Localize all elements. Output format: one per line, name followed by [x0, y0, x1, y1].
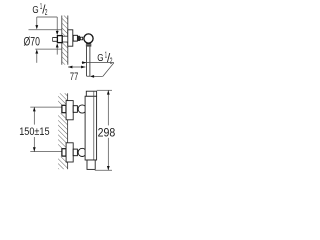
neck to handle	[80, 37, 82, 40]
dimension 77	[68, 66, 85, 84]
supply pipe stub (in wall)	[53, 38, 58, 42]
bottom outlet of column	[87, 160, 95, 169]
lower union nut square	[73, 149, 77, 156]
svg-text:150±15: 150±15	[19, 126, 49, 138]
svg-text:77: 77	[70, 71, 78, 83]
leader to pipe side (G1/2 right)	[82, 61, 114, 64]
escutcheon extension line top	[29, 29, 62, 31]
wall section band (top view)	[62, 16, 68, 65]
G1/2 leader bracket (top-left)	[35, 17, 58, 55]
upper union nut square	[73, 106, 77, 113]
svg-text:Ø70: Ø70	[24, 35, 41, 49]
wall section band (side view)	[58, 93, 68, 169]
svg-text:298: 298	[98, 126, 116, 140]
dimension 150±15	[19, 107, 49, 152]
concealed supply elbow square (in wall)	[57, 36, 62, 43]
lower union shank square	[62, 149, 66, 156]
mixer body column (side view)	[85, 91, 97, 160]
lower union nut circle	[78, 148, 86, 156]
leader to pipe end (second leader)	[90, 63, 114, 78]
outlet nipple below handle	[86, 44, 91, 47]
upper union shank square	[62, 105, 66, 112]
dimension 298	[95, 90, 116, 170]
union body square (top view)	[73, 35, 77, 41]
union nut (top view, dark)	[78, 36, 81, 41]
upper escutcheon (side view)	[66, 101, 73, 120]
label diameter 70	[24, 35, 41, 49]
pipe passing through wall (white gap in hatch)	[61, 36, 68, 42]
dimension 150±15 extension lines	[30, 106, 62, 108]
lower escutcheon (side view)	[66, 143, 73, 162]
thermostat handle (circle, top view)	[84, 34, 93, 43]
svg-text:2: 2	[45, 7, 48, 17]
escutcheon extension line bottom	[35, 48, 62, 50]
upper pipe gap through wall	[58, 105, 68, 113]
svg-text:2: 2	[110, 55, 113, 65]
lower pipe gap through wall	[58, 148, 68, 156]
label G 1/2 (top-left)	[32, 2, 47, 17]
escutcheon (top view, on wall face)	[68, 30, 73, 46]
upper union nut circle	[78, 105, 86, 113]
svg-text:G: G	[32, 5, 38, 16]
dimension arrow up (to bottom ext line)	[35, 49, 38, 63]
outlet pipe (downwards)	[87, 47, 90, 77]
